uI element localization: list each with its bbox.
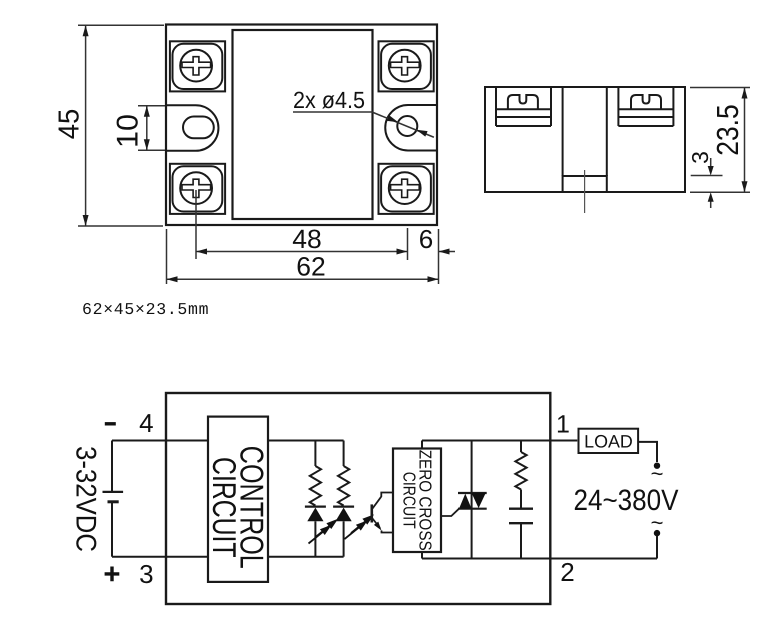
LOAD box	[579, 429, 639, 453]
battery cell long plate	[103, 491, 124, 493]
snubber resistor R3	[515, 452, 526, 490]
resistor R1	[310, 466, 321, 506]
emitter arrowhead	[374, 522, 382, 531]
wire AC terminal bottom to rail	[656, 536, 658, 559]
wire: output bottom rail (terminal 2)	[422, 558, 657, 560]
leader arrowhead upper	[387, 115, 398, 122]
svg-text:62: 62	[296, 252, 325, 282]
dimension 23.5 (side)	[690, 88, 750, 193]
leader arrowhead lower	[416, 130, 427, 137]
center channel right wall	[606, 87, 608, 176]
LED D1 light arrows	[309, 521, 336, 544]
wire resistor to capacitor	[520, 490, 522, 509]
zero cross bottom stub	[421, 552, 423, 559]
dimension 45 (left)	[78, 25, 164, 226]
zero cross top stub	[421, 441, 423, 449]
right mounting tab	[385, 105, 437, 151]
svg-text:LOAD: LOAD	[584, 431, 633, 451]
snubber branch wire top	[520, 441, 522, 453]
dimension 62 (bottom)	[167, 229, 439, 284]
triac triangle down	[472, 493, 486, 508]
wire: input bottom rail (terminal 3)	[112, 556, 344, 558]
SSR center cover rectangle	[233, 30, 373, 219]
SSR outer box	[166, 393, 550, 604]
phototransistor Q1 base bar	[370, 504, 373, 522]
wire capacitor to bottom rail	[520, 523, 522, 558]
resistor R2	[338, 466, 349, 506]
svg-text:2: 2	[560, 557, 574, 587]
screw terminal top-left	[170, 41, 225, 91]
mounting hole 4.5	[397, 116, 417, 136]
triac branch wire	[471, 441, 473, 559]
svg-text:3: 3	[139, 559, 153, 589]
svg-text:10: 10	[112, 114, 145, 148]
svg-text:2x ø4.5: 2x ø4.5	[293, 87, 365, 113]
battery cell short plate	[108, 500, 119, 503]
center channel left wall	[562, 87, 564, 176]
AC terminal dot bottom	[654, 530, 660, 536]
svg-text:4: 4	[139, 408, 153, 438]
screw terminal top-right	[379, 41, 434, 91]
SSR body outline front view	[166, 25, 437, 226]
label plus	[105, 567, 120, 582]
LED D2 triangle	[336, 508, 352, 522]
base step bottom	[563, 191, 607, 193]
triac MT1 bar	[458, 508, 487, 510]
wire: input top rail (terminal 4)	[112, 440, 344, 442]
LED D1 cathode bar	[305, 506, 326, 508]
phototransistor emitter lead	[373, 519, 394, 533]
triac MT2 bar	[458, 492, 487, 494]
resistor branch 2 vertical wire	[343, 441, 345, 467]
left oval slot	[183, 117, 214, 139]
snubber capacitor C1 bottom plate	[509, 522, 533, 524]
wire: output top rail (terminal 1)	[422, 440, 577, 442]
LED D1 triangle	[307, 508, 323, 522]
resistor branch 1 vertical wire	[314, 441, 316, 467]
dimension 10 (oval)	[138, 106, 165, 150]
right terminal block (side view)	[618, 87, 673, 126]
wire: battery left vertical top	[111, 441, 113, 492]
mounting centerline	[584, 170, 586, 213]
svg-text:62×45×23.5mm: 62×45×23.5mm	[82, 300, 209, 319]
LED D2 light arrows to phototransistor	[345, 516, 372, 539]
svg-text:6: 6	[419, 224, 433, 254]
dimension 3 (side base)	[691, 158, 723, 208]
svg-text:48: 48	[292, 224, 321, 254]
leader line for hole	[293, 112, 434, 137]
svg-text:3-32VDC: 3-32VDC	[70, 446, 102, 552]
svg-text:CONTROLCIRCUIT: CONTROLCIRCUIT	[206, 446, 270, 569]
phototransistor collector lead	[373, 493, 394, 509]
side view body outline	[485, 87, 685, 192]
control circuit box	[208, 417, 268, 582]
dimension 6 (bottom right)	[439, 229, 456, 284]
left mounting tab	[166, 105, 218, 151]
zero cross circuit box	[393, 449, 441, 553]
svg-text:1: 1	[556, 411, 570, 439]
snubber capacitor C1 top plate	[509, 508, 533, 510]
triac triangle up	[459, 494, 472, 509]
screw terminal bottom-left	[170, 164, 225, 214]
svg-text:45: 45	[53, 109, 85, 140]
wire: battery left vertical bottom	[111, 502, 113, 557]
AC terminal dot top	[654, 463, 660, 469]
svg-text:~: ~	[651, 461, 664, 486]
left terminal block (side view)	[496, 87, 551, 126]
triac gate lead	[441, 509, 459, 516]
screw terminal bottom-right	[379, 164, 434, 214]
wire LOAD to AC terminal top	[638, 442, 657, 462]
svg-text:23.5: 23.5	[711, 104, 745, 156]
svg-text:3: 3	[687, 151, 713, 164]
label minus	[105, 422, 116, 425]
dimension 48 (bottom)	[196, 190, 408, 260]
LED D2 cathode bar	[333, 506, 354, 508]
